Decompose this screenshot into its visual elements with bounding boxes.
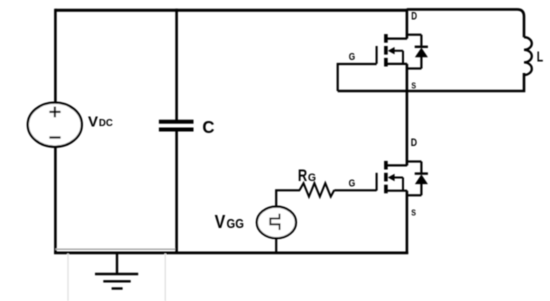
wire: top rail left (V+ bus) [56, 9, 408, 12]
svg-text:DC: DC [99, 118, 114, 129]
faint table border right [164, 254, 166, 301]
wire: capacitor bottom lead [175, 131, 178, 254]
svg-text:G: G [308, 172, 316, 184]
inductor L (3 humps bulging right) [524, 37, 532, 75]
svg-text:C: C [202, 117, 214, 137]
source VGG (pulse source circle) [257, 207, 296, 239]
svg-text:G: G [349, 52, 356, 63]
wire: switch node vertical (top FET source to bottom FET drain) [406, 64, 409, 166]
wire: main right vertical (drain top FET) [406, 9, 409, 39]
pulse glyph inside VGG [270, 214, 279, 230]
transistor Q2 (bottom MOSFET with body diode) [377, 161, 428, 195]
plus sign [49, 107, 60, 118]
svg-text:S: S [411, 209, 416, 218]
diode return line [407, 67, 422, 69]
wire: bottom ground rail [54, 252, 408, 255]
svg-text:D: D [411, 137, 417, 149]
wire: inductor bottom down and left to switch node [338, 73, 524, 91]
wire: RG to gate [334, 189, 376, 191]
wire: VDC bottom to ground rail [54, 147, 57, 254]
diode top stub [407, 34, 422, 36]
wire: top rail right to inductor with rounded corner [407, 9, 524, 37]
svg-text:L: L [537, 49, 543, 66]
svg-text:V: V [88, 113, 98, 130]
svg-text:S: S [411, 82, 416, 91]
resistor RG [300, 183, 335, 196]
svg-text:GG: GG [227, 216, 244, 231]
gate bar [376, 46, 378, 64]
minus sign [49, 136, 60, 138]
body diode [420, 35, 422, 69]
wire: capacitor top lead [175, 9, 178, 121]
svg-text:R: R [298, 167, 307, 185]
channel segments [384, 34, 388, 43]
body arrow [388, 47, 395, 54]
source VDC (circle) [28, 103, 82, 147]
wire: VGG bottom to rail [275, 238, 277, 254]
svg-text:V: V [215, 211, 226, 232]
transistor Q1 (top MOSFET with body diode) [377, 34, 428, 68]
svg-text:D: D [411, 11, 417, 23]
faint table border left [67, 254, 69, 301]
wire: top FET gate tied to source [338, 64, 377, 91]
capacitor C plates [159, 120, 194, 124]
source line [386, 63, 407, 65]
wire: bottom FET source to ground rail [406, 191, 409, 254]
ground symbol [116, 253, 118, 274]
wire: VGG top lead up to RG level [276, 190, 300, 207]
svg-text:G: G [349, 179, 356, 190]
drain line [386, 37, 407, 39]
wire: stray line between VDC and C [55, 248, 176, 250]
wire: left vertical from top rail to VDC [54, 9, 57, 103]
